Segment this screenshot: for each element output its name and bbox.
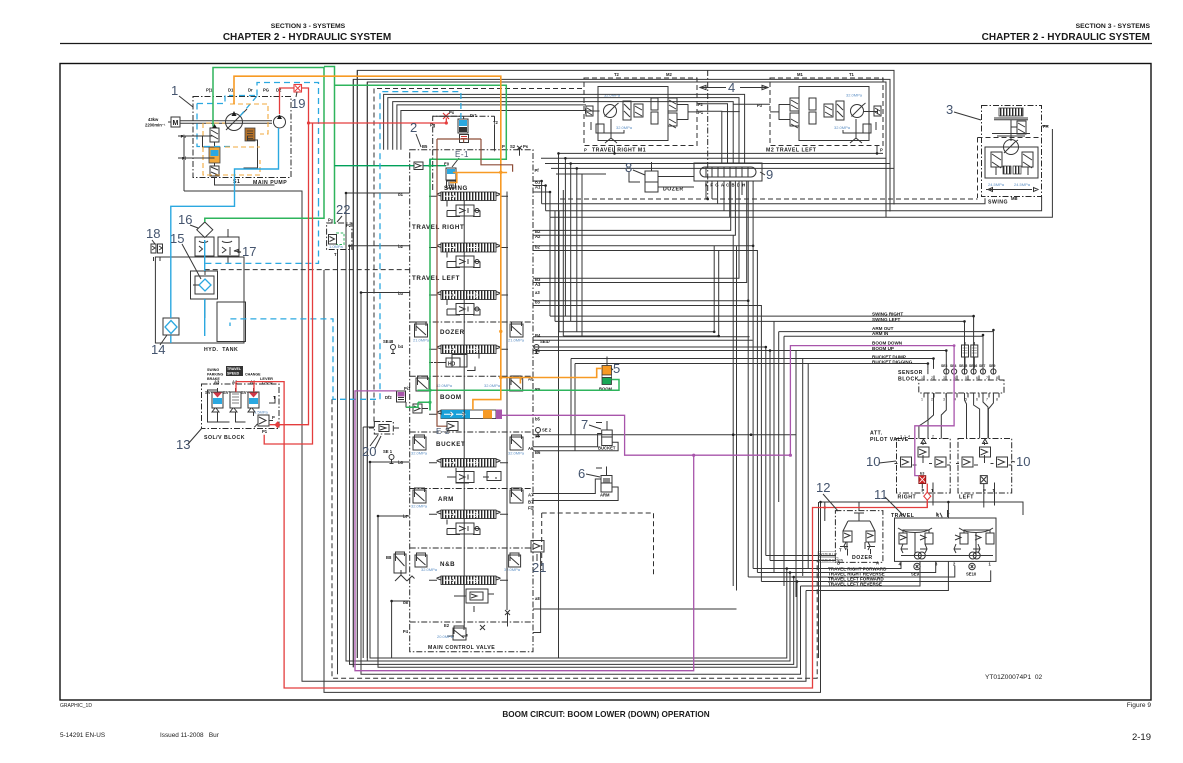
sensor block — [898, 345, 1004, 402]
svg-text:E-2: E-2 — [436, 427, 450, 436]
svg-text:SE7: SE7 — [979, 364, 986, 368]
svg-text:E-1: E-1 — [455, 150, 469, 159]
wire: arm holding valve dashed box 21 — [542, 513, 654, 575]
svg-text:P: P — [584, 148, 587, 153]
wire: dozer cylinder feed — [658, 177, 694, 188]
svg-text:SV¹: SV¹ — [205, 390, 213, 395]
bucket section — [429, 441, 508, 483]
svg-text:8: 8 — [625, 160, 632, 175]
svg-text:7: 7 — [986, 398, 988, 402]
svg-text:SE48: SE48 — [383, 339, 394, 344]
pump inner cyan dashed pilot box — [197, 83, 319, 201]
svg-text:Figure 9: Figure 9 — [1127, 702, 1152, 709]
svg-text:13: 13 — [176, 437, 190, 452]
arm section — [429, 496, 508, 535]
pilot relief Px red cross — [443, 110, 455, 119]
svg-text:21.0MPa: 21.0MPa — [508, 338, 525, 343]
svg-text:P3: P3 — [757, 103, 763, 108]
svg-text:BOOM DOWN: BOOM DOWN — [872, 341, 903, 346]
wire: bottom left bus rows — [302, 70, 806, 681]
svg-text:Dr1: Dr1 — [470, 113, 478, 118]
swing spool — [429, 192, 508, 201]
travel right section — [412, 224, 508, 268]
wire: mid risers to lower right — [770, 321, 948, 597]
svg-text:BOOM: BOOM — [440, 394, 462, 401]
svg-text:5: 5 — [965, 376, 967, 380]
svg-text:5-14291 EN-US: 5-14291 EN-US — [60, 732, 105, 739]
svg-text:32.0MPa: 32.0MPa — [411, 504, 428, 509]
svg-text:21: 21 — [532, 560, 546, 575]
svg-text:P4: P4 — [403, 629, 409, 634]
svg-text:1.5MPa: 1.5MPa — [254, 410, 269, 415]
svg-text:b2: b2 — [535, 245, 541, 250]
svg-text:T: T — [839, 548, 842, 553]
arm relief valves — [411, 488, 523, 509]
SE47 pressure tap — [534, 339, 551, 354]
N&B relief valves — [386, 552, 521, 581]
svg-text:ATT.: ATT. — [870, 431, 883, 437]
svg-text:6: 6 — [578, 466, 585, 481]
svg-text:P: P — [328, 218, 331, 223]
swing section pilot valve (cyan) — [444, 162, 456, 189]
accumulator block 22 — [327, 218, 352, 258]
wire: SE1 b6 row — [370, 460, 410, 463]
svg-text:M: M — [173, 120, 179, 127]
svg-text:2: 2 — [953, 562, 956, 567]
svg-text:14: 14 — [151, 342, 165, 357]
svg-text:22: 22 — [336, 202, 350, 217]
svg-text:M2 TRAVEL LEFT: M2 TRAVEL LEFT — [766, 148, 817, 154]
tank internal pipes — [205, 256, 228, 318]
svg-text:2: 2 — [931, 376, 933, 380]
att pilot valve LEFT 10 — [956, 439, 1012, 501]
svg-text:E3: E3 — [920, 472, 924, 476]
svg-text:18: 18 — [146, 226, 160, 241]
svg-text:BUCKET: BUCKET — [436, 441, 465, 448]
svg-text:P: P — [922, 488, 925, 493]
svg-text:CHANGE: CHANGE — [245, 373, 261, 377]
solenoid valve block 13 — [202, 366, 280, 441]
wire: sensor block to att pilot valves — [919, 342, 994, 439]
svg-text:FD: FD — [528, 506, 534, 511]
svg-text:32.0MPa: 32.0MPa — [834, 125, 851, 130]
bucket relief valves — [411, 435, 525, 456]
green check valve on P line — [414, 162, 423, 170]
purple net: boom down pilot — [355, 346, 954, 671]
bypass valve 17 — [218, 229, 239, 264]
dozer pilot valve 12 — [835, 511, 883, 566]
svg-text:32.0MPa: 32.0MPa — [616, 125, 633, 130]
pilot signal name labels — [872, 312, 913, 365]
swing sub valve — [447, 201, 480, 217]
svg-text:E2: E2 — [444, 623, 450, 628]
svg-text:T2: T2 — [614, 72, 620, 77]
svg-text:TRAVEL RIGHT M1: TRAVEL RIGHT M1 — [592, 148, 646, 154]
svg-text:A: A — [876, 561, 879, 566]
svg-text:SE45: SE45 — [959, 364, 967, 368]
E-0 pilot solenoid Dr1 — [430, 113, 499, 143]
wire: valve top to E-1 connections — [432, 116, 495, 150]
svg-text:1: 1 — [921, 398, 923, 402]
pump case drain lines — [178, 136, 210, 191]
svg-text:SOL/V BLOCK: SOL/V BLOCK — [204, 435, 245, 441]
valve inlet arrows top right — [517, 146, 522, 156]
wire: dashed pilot drain top — [374, 89, 583, 422]
att pilot valve RIGHT 10 — [895, 435, 951, 501]
svg-text:B4: B4 — [535, 333, 541, 338]
filter bypass box 16b — [195, 237, 214, 256]
svg-text:10: 10 — [1016, 454, 1030, 469]
svg-text:SENSOR: SENSOR — [898, 370, 923, 376]
dozer relief valves — [413, 322, 525, 343]
svg-text:b5: b5 — [535, 417, 541, 422]
wire: travel motor drain U-line — [559, 146, 884, 659]
svg-text:3 1 4: 3 1 4 — [900, 435, 910, 439]
boom relief valves — [416, 376, 523, 391]
svg-text:N&B: N&B — [440, 561, 455, 568]
sol/v internal drain lines — [208, 388, 276, 422]
valve outlet section — [437, 610, 510, 640]
wire: travel pilot lines down right — [533, 181, 770, 582]
svg-text:B5: B5 — [422, 144, 428, 149]
main control valve block E-1 — [410, 144, 540, 652]
suction strainer 14 (diamond) — [163, 318, 179, 335]
svg-text:SWING: SWING — [988, 200, 1008, 206]
swing motor unit 3 — [978, 106, 1049, 206]
svg-text:GRAPHIC_1D: GRAPHIC_1D — [60, 703, 92, 709]
cyan dashed net: DF1 pilot line — [230, 92, 461, 400]
svg-text:DOZER: DOZER — [852, 555, 873, 561]
travel signal labels — [828, 567, 887, 587]
solenoid valve SV3 — [248, 392, 259, 416]
travel right motor M1 — [584, 72, 704, 154]
svg-text:8: 8 — [996, 376, 998, 380]
wire: pump return to tank gray — [184, 191, 302, 681]
svg-text:SE9: SE9 — [989, 364, 996, 368]
svg-text:21.0MPa: 21.0MPa — [413, 338, 430, 343]
drawing frame — [60, 64, 1151, 701]
svg-text:ARM: ARM — [438, 496, 454, 503]
pump regulator valves — [201, 124, 275, 185]
svg-text:b3: b3 — [398, 291, 404, 296]
svg-text:Pi1: Pi1 — [404, 386, 411, 391]
svg-text:SPEED: SPEED — [227, 372, 240, 376]
pilot pump P2 — [274, 115, 286, 129]
svg-text:b4: b4 — [398, 344, 404, 349]
svg-text:Df2: Df2 — [385, 395, 392, 400]
SE48 pressure tap — [383, 339, 396, 354]
svg-text:TRAVEL: TRAVEL — [227, 367, 242, 371]
sol/v reducing valve 1.5MPa — [254, 410, 275, 435]
svg-text:P: P — [502, 144, 505, 149]
travel left section — [412, 275, 508, 315]
travel pilot valve 11 — [891, 510, 996, 577]
svg-text:2200min⁻¹: 2200min⁻¹ — [145, 123, 166, 128]
svg-text:SV²: SV² — [223, 390, 231, 395]
svg-text:2: 2 — [931, 398, 933, 402]
svg-text:P1: P1 — [262, 429, 268, 434]
svg-text:7: 7 — [986, 376, 988, 380]
valve left port labels — [398, 192, 409, 634]
svg-text:32.0MPa: 32.0MPa — [604, 93, 621, 98]
svg-text:1: 1 — [989, 562, 992, 567]
svg-text:HYD. TANK: HYD. TANK — [204, 347, 238, 353]
svg-text:2: 2 — [410, 120, 417, 135]
wire: pilot signal rows upper — [464, 190, 993, 628]
wire: arm cylinder lines — [533, 479, 618, 501]
svg-text:20: 20 — [362, 444, 376, 459]
brown net: E-0 drain — [437, 139, 513, 431]
svg-text:19: 19 — [291, 96, 305, 111]
footer — [60, 674, 1151, 743]
cyan net: pilot pump to tank — [171, 128, 279, 343]
svg-text:PA: PA — [1043, 124, 1049, 129]
svg-text:LEFT: LEFT — [959, 495, 974, 501]
svg-text:T1: T1 — [849, 72, 855, 77]
svg-text:43kw: 43kw — [148, 117, 159, 122]
svg-text:b2: b2 — [398, 244, 404, 249]
svg-text:CHAPTER 2 - HYDRAULIC SYSTEM: CHAPTER 2 - HYDRAULIC SYSTEM — [223, 32, 391, 43]
svg-text:a8: a8 — [535, 596, 540, 601]
wire: swing motor work lines mid rows — [533, 158, 894, 590]
svg-text:SE10: SE10 — [966, 572, 977, 577]
svg-text:12: 12 — [816, 480, 830, 495]
svg-text:SV³: SV³ — [241, 390, 249, 395]
svg-text:DOZER: DOZER — [440, 329, 465, 336]
svg-text:SE4: SE4 — [950, 364, 957, 368]
svg-text:T2: T2 — [493, 120, 499, 125]
svg-text:TRAVEL LEFT: TRAVEL LEFT — [412, 275, 460, 282]
svg-text:SWING: SWING — [444, 185, 468, 192]
svg-text:24.5MPa: 24.5MPa — [988, 182, 1005, 187]
strainer 15 — [191, 269, 218, 299]
callout number labels — [146, 83, 1030, 575]
svg-text:P2: P2 — [346, 223, 352, 228]
arm cylinder 6 — [596, 467, 612, 498]
page header left — [223, 23, 391, 43]
svg-text:SECTION 3 - SYSTEMS: SECTION 3 - SYSTEMS — [1076, 23, 1151, 30]
svg-text:11: 11 — [874, 487, 888, 502]
boom section pilot loop components — [406, 402, 428, 413]
svg-text:32.0MPa: 32.0MPa — [421, 567, 438, 572]
wire: swivel center dash-dot — [707, 70, 709, 199]
pump inner orange dashed box — [203, 104, 268, 175]
main pump S1 block — [181, 88, 291, 187]
wire: dashed swivel drain — [560, 198, 978, 200]
svg-text:M1: M1 — [797, 72, 803, 77]
svg-text:PG: PG — [263, 88, 269, 93]
svg-text:S2: S2 — [510, 144, 516, 149]
swivel joint 9 — [694, 163, 762, 199]
svg-text:24.5MPa: 24.5MPa — [1014, 182, 1031, 187]
breather 18 — [151, 244, 163, 261]
svg-text:32.0MPa: 32.0MPa — [846, 93, 863, 98]
svg-text:Ps: Ps — [523, 144, 529, 149]
svg-text:1: 1 — [921, 376, 923, 380]
check valve for 21 — [531, 541, 544, 633]
svg-text:5: 5 — [613, 361, 620, 376]
dozer up/down boxed labels — [818, 552, 844, 563]
svg-text:Pf: Pf — [535, 168, 540, 173]
svg-text:8: 8 — [996, 398, 998, 402]
dozer cylinder 8 — [629, 162, 684, 193]
svg-text:1.0MPa: 1.0MPa — [329, 244, 344, 249]
svg-text:P|1: P|1 — [206, 88, 213, 93]
svg-text:M2: M2 — [666, 72, 672, 77]
svg-text:6: 6 — [976, 398, 978, 402]
svg-text:Issued 11-2008 Bur: Issued 11-2008 Bur — [160, 732, 220, 739]
solenoid valve SV2 — [230, 392, 241, 416]
bucket cylinder 7 — [596, 421, 616, 451]
svg-text:SE 1: SE 1 — [383, 449, 393, 454]
svg-text:15: 15 — [170, 231, 184, 246]
dozer section — [429, 329, 508, 371]
svg-text:32.0MPa: 32.0MPa — [411, 451, 428, 456]
return filter 16 (diamond) — [197, 222, 213, 238]
svg-text:RIGHT: RIGHT — [898, 495, 917, 501]
E-1 top block outline — [433, 116, 495, 190]
wire: dashed tank line mid — [205, 269, 410, 271]
svg-text:F2: F2 — [698, 102, 704, 107]
N&B section — [429, 561, 508, 612]
svg-text:20.0MPa: 20.0MPa — [437, 634, 454, 639]
electric motor M 43kW 2200rpm — [145, 117, 180, 128]
svg-text:32.0MPa: 32.0MPa — [484, 383, 501, 388]
SE1 pressure tap — [383, 449, 394, 464]
cyan dashed net: pump drain — [205, 201, 319, 264]
svg-text:MB: MB — [1011, 196, 1018, 201]
svg-text:3: 3 — [943, 398, 945, 402]
wire: travel section work lines — [533, 181, 747, 283]
svg-text:9: 9 — [766, 167, 773, 182]
wire: pilot valve P/T drops — [324, 270, 1023, 692]
boom cylinder 5 — [599, 357, 613, 392]
svg-text:MAIN CONTROL VALVE: MAIN CONTROL VALVE — [428, 645, 495, 651]
boom section — [429, 394, 502, 419]
svg-text:TRAVEL RIGHT: TRAVEL RIGHT — [412, 224, 464, 231]
svg-text:2-19: 2-19 — [1132, 732, 1151, 743]
svg-text:T: T — [334, 252, 337, 257]
pump drive shaft — [180, 121, 272, 124]
svg-text:T: T — [273, 395, 276, 400]
svg-text:10: 10 — [866, 454, 880, 469]
SE2 pressure tap — [536, 428, 552, 437]
ATT pilot valve labels — [870, 431, 909, 444]
svg-text:SWING: SWING — [207, 368, 219, 372]
wire: dashed bottom loop — [332, 399, 817, 678]
wire: bucket cylinder lines — [533, 434, 618, 451]
svg-text:BUCKET: BUCKET — [598, 446, 616, 451]
valve right port labels — [528, 180, 541, 602]
svg-text:17: 17 — [242, 244, 256, 259]
svg-text:a3: a3 — [535, 290, 540, 295]
boom pilot check DF2 (purple) — [385, 386, 411, 402]
svg-text:CHAPTER 2 - HYDRAULIC SYSTEM: CHAPTER 2 - HYDRAULIC SYSTEM — [982, 32, 1150, 43]
svg-text:6: 6 — [976, 376, 978, 380]
hydraulic tank block — [155, 257, 245, 353]
svg-text:3: 3 — [943, 376, 945, 380]
svg-text:BLOCK: BLOCK — [898, 377, 919, 383]
svg-text:3: 3 — [946, 102, 953, 117]
svg-text:SE 2: SE 2 — [542, 428, 552, 433]
red net: pilot primary pressure — [264, 85, 448, 445]
svg-text:BOOM CIRCUIT: BOOM LOWER (DOWN: BOOM CIRCUIT: BOOM LOWER (DOWN) OPERATIO… — [502, 710, 709, 719]
svg-text:7: 7 — [581, 417, 588, 432]
wire: a8 row — [533, 608, 737, 610]
svg-text:1: 1 — [171, 83, 178, 98]
main pump P1 (variable) — [226, 109, 248, 131]
svg-text:PARKING: PARKING — [207, 373, 224, 377]
label 4 pointer arrows — [700, 80, 768, 95]
svg-text:Dr: Dr — [248, 88, 253, 93]
solenoid valve SV1 — [212, 392, 223, 416]
wire: dozer pilot rows — [766, 556, 836, 561]
svg-text:A3: A3 — [214, 380, 220, 385]
pressure reducing block 20 — [369, 422, 399, 449]
green net: pump P1 supply — [205, 67, 619, 411]
svg-text:YT01Z00074P1 02: YT01Z00074P1 02 — [985, 674, 1043, 681]
wire: bucket long a6 row — [533, 434, 796, 436]
travel left motor M2 — [757, 72, 883, 154]
svg-text:ARM: ARM — [600, 493, 610, 498]
wire: travel signal rows — [748, 561, 991, 581]
wire: top nest bus left-to-right — [353, 70, 894, 667]
orange net: pilot supply — [234, 76, 602, 410]
svg-text:D1: D1 — [228, 88, 234, 93]
page header right — [60, 23, 1152, 44]
svg-text:SECTION 3 - SYSTEMS: SECTION 3 - SYSTEMS — [271, 23, 346, 30]
svg-text:32.0MPa: 32.0MPa — [436, 383, 453, 388]
svg-text:B8: B8 — [386, 555, 392, 560]
wire: swivel to swing rows — [533, 126, 1052, 217]
svg-text:32.0MPa: 32.0MPa — [508, 451, 525, 456]
svg-text:2: 2 — [932, 435, 934, 439]
svg-text:P: P — [880, 148, 883, 153]
red net: lever lock loop to travel pilot — [236, 382, 931, 688]
svg-text:P: P — [272, 415, 275, 420]
